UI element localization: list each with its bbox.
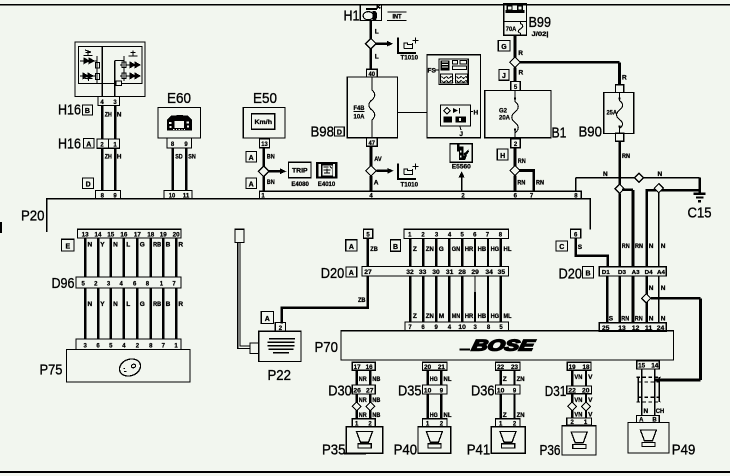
svg-text:ZN: ZN bbox=[426, 246, 434, 253]
svg-text:R: R bbox=[622, 75, 627, 82]
wire RN diamond to D20/B pin D3 bbox=[618, 193, 621, 266]
svg-text:D20: D20 bbox=[559, 266, 583, 283]
label A connector lower bbox=[246, 178, 257, 188]
svg-text:10: 10 bbox=[424, 388, 432, 394]
wires D20/B to P70 right bbox=[607, 276, 659, 323]
svg-text:HB: HB bbox=[478, 246, 487, 253]
connector P75 pins 3 6 5 4 2 8 7 1 bbox=[76, 339, 181, 350]
svg-text:20: 20 bbox=[173, 233, 181, 239]
connector P20 pins 10 11 bbox=[164, 190, 192, 199]
wire labels Z ZN M MN HR HB HG ML bbox=[413, 313, 512, 320]
svg-text:INT: INT bbox=[393, 14, 402, 21]
svg-text:NR: NR bbox=[359, 376, 367, 383]
svg-text:ZH: ZH bbox=[105, 154, 112, 161]
junction diamond RN split bbox=[615, 184, 624, 193]
label H16 B bbox=[58, 102, 93, 119]
speedometer E50 bbox=[243, 90, 285, 138]
svg-text:N: N bbox=[117, 111, 122, 118]
svg-text:HL: HL bbox=[504, 246, 512, 253]
battery positive symbol T1010 second bbox=[398, 164, 419, 189]
svg-text:19: 19 bbox=[569, 365, 577, 371]
ground line N to C15 bbox=[576, 177, 700, 179]
svg-text:ZN: ZN bbox=[517, 376, 525, 383]
svg-text:22: 22 bbox=[497, 365, 505, 371]
svg-text:B: B bbox=[585, 271, 590, 278]
svg-text:A: A bbox=[374, 180, 379, 187]
svg-text:A: A bbox=[249, 181, 254, 188]
arrow to trip computer bbox=[269, 168, 286, 174]
label C connector bbox=[556, 241, 567, 251]
svg-text:16: 16 bbox=[120, 233, 128, 239]
label J connector bbox=[499, 69, 509, 80]
arrow to battery feed T1010 bbox=[376, 41, 393, 47]
speaker P36 bbox=[540, 426, 597, 459]
wire ZH H16 pin4 to H16/A pin2 bbox=[101, 106, 104, 139]
svg-text:N: N bbox=[113, 242, 118, 249]
svg-text:H1: H1 bbox=[344, 8, 360, 25]
svg-text:P41: P41 bbox=[467, 442, 491, 459]
svg-text:22: 22 bbox=[568, 389, 576, 395]
svg-text:H: H bbox=[474, 110, 479, 117]
wire N drop to P20 pin8 bbox=[575, 178, 577, 191]
svg-text:B1: B1 bbox=[552, 124, 567, 141]
wire RN B90 down bbox=[618, 141, 621, 184]
svg-text:NR: NR bbox=[359, 412, 367, 419]
wire H H16/A pin1 to P20 pin9 bbox=[114, 148, 117, 190]
wire SD E60 pin8 to P20 pin10 bbox=[171, 148, 174, 191]
wire SN E60 pin9 to P20 pin11 bbox=[185, 148, 188, 191]
svg-text:ZN: ZN bbox=[517, 412, 525, 419]
fuse box B1 bbox=[485, 90, 551, 137]
svg-text:A: A bbox=[249, 155, 254, 162]
svg-text:N: N bbox=[649, 243, 654, 250]
svg-text:HR: HR bbox=[465, 246, 474, 253]
svg-text:S: S bbox=[609, 316, 614, 323]
svg-text:G: G bbox=[140, 301, 145, 308]
svg-text:35: 35 bbox=[498, 270, 506, 276]
wires P20 13-20 to D96 bbox=[85, 238, 176, 277]
label D20 B bbox=[559, 266, 594, 283]
svg-text:BN: BN bbox=[267, 179, 275, 186]
connector D36 pins 10 9 bbox=[471, 382, 520, 399]
svg-text:A: A bbox=[265, 316, 270, 323]
wires P70 to D31 bbox=[572, 370, 586, 386]
svg-text:T1010: T1010 bbox=[401, 182, 419, 188]
label H connector bbox=[497, 149, 508, 160]
P20 aerial connector square bbox=[235, 229, 244, 242]
svg-text:21: 21 bbox=[438, 365, 446, 371]
wire A diamond to P20 pin4 bbox=[370, 176, 373, 191]
svg-text:R: R bbox=[178, 242, 183, 249]
svg-text:N: N bbox=[661, 285, 666, 292]
svg-text:G: G bbox=[140, 242, 145, 249]
svg-text:FS: FS bbox=[428, 68, 437, 75]
svg-text:H16: H16 bbox=[58, 136, 81, 153]
svg-text:NL: NL bbox=[444, 412, 452, 419]
trip computer box TRIP bbox=[288, 162, 311, 188]
svg-text:RN: RN bbox=[621, 316, 629, 323]
FS relay pictogram with labels H J bbox=[441, 105, 479, 138]
junction diamond L wire bbox=[366, 38, 377, 49]
connector H16 pins 4 3 bbox=[98, 97, 120, 107]
amplifier antenna unit P22 bbox=[259, 331, 301, 361]
svg-text:17: 17 bbox=[354, 365, 362, 371]
wire BN diamond to P20 pin1 bbox=[262, 177, 265, 192]
svg-text:P75: P75 bbox=[40, 362, 63, 379]
svg-text:H: H bbox=[500, 153, 505, 160]
wire R B99 down bbox=[514, 35, 517, 57]
connector pin 2 of B1 bbox=[511, 139, 521, 148]
label D connector of P20 bbox=[83, 178, 94, 188]
svg-text:30: 30 bbox=[432, 270, 440, 276]
svg-text:E60: E60 bbox=[167, 90, 191, 107]
svg-text:E5560: E5560 bbox=[452, 165, 472, 171]
svg-text:H: H bbox=[117, 154, 122, 161]
connector P70 pins 22 23 bbox=[496, 362, 520, 371]
connector P49 pins A B bbox=[636, 415, 659, 423]
connector pin 5 of P20 bottom bbox=[363, 229, 372, 238]
svg-text:A: A bbox=[349, 244, 354, 251]
junction diamond VN bbox=[568, 402, 577, 411]
svg-text:A3: A3 bbox=[632, 270, 640, 276]
svg-text:31: 31 bbox=[446, 270, 454, 276]
svg-text:D3: D3 bbox=[618, 270, 626, 276]
label B connector bbox=[391, 240, 401, 252]
svg-text:R: R bbox=[519, 70, 524, 77]
svg-text:VN: VN bbox=[574, 397, 582, 404]
svg-text:27: 27 bbox=[364, 270, 372, 276]
svg-text:P35: P35 bbox=[322, 442, 346, 459]
svg-text:D35: D35 bbox=[398, 382, 422, 399]
wire RN branch to P20 pin7 bbox=[519, 171, 534, 192]
connector pin 40 bbox=[367, 69, 378, 78]
H16 internal lamp/LED symbols right cell bbox=[115, 51, 141, 86]
svg-text:HG: HG bbox=[430, 376, 438, 383]
svg-text:B98: B98 bbox=[311, 124, 335, 141]
svg-text:32: 32 bbox=[406, 270, 414, 276]
svg-text:P49: P49 bbox=[672, 441, 696, 458]
junction diamond R wire bbox=[510, 57, 521, 68]
fuse B90 bottom terminal bbox=[616, 133, 624, 141]
connector P70 pins 15 14 bbox=[637, 361, 660, 370]
svg-text:VN: VN bbox=[574, 374, 582, 381]
junction diamond V bbox=[582, 402, 591, 411]
wire L diamond to fuse B98 pin40 bbox=[369, 49, 372, 69]
label B99 J/02 bbox=[529, 14, 552, 38]
svg-text:20A: 20A bbox=[499, 116, 511, 122]
svg-text:N: N bbox=[661, 243, 666, 250]
P20 bottom connector strip pins 1-8 bbox=[404, 229, 508, 238]
svg-text:T1010: T1010 bbox=[401, 56, 419, 62]
svg-text:15: 15 bbox=[638, 364, 646, 370]
svg-text:AV: AV bbox=[374, 156, 382, 163]
junction diamond NR bbox=[352, 402, 361, 411]
connector P70 pins 19 18 bbox=[567, 362, 591, 371]
wires D36 to P41 bbox=[501, 394, 515, 419]
wire RN diamond to P20 pin6 bbox=[514, 176, 517, 192]
svg-text:13: 13 bbox=[261, 142, 268, 148]
svg-text:16: 16 bbox=[366, 365, 374, 371]
connector E60 pins 8 9 bbox=[167, 138, 192, 148]
label A connector bbox=[346, 240, 357, 251]
connector D35 pins 10 9 bbox=[398, 382, 447, 399]
svg-text:23: 23 bbox=[511, 365, 519, 371]
wire L from H1 bbox=[369, 20, 372, 39]
BOSE logo bbox=[460, 338, 537, 355]
svg-text:B: B bbox=[166, 242, 171, 249]
connector pin 5 of B1 bbox=[511, 82, 521, 91]
connector pin 2 of P22 bbox=[275, 323, 285, 332]
svg-text:14: 14 bbox=[651, 364, 659, 370]
speaker P35 bbox=[322, 427, 383, 459]
svg-text:Z: Z bbox=[413, 313, 417, 320]
svg-text:B: B bbox=[393, 244, 398, 251]
wire BN E50 pin13 down bbox=[262, 148, 265, 167]
svg-text:33: 33 bbox=[419, 270, 427, 276]
svg-text:HR: HR bbox=[465, 313, 474, 320]
svg-text:C15: C15 bbox=[688, 205, 712, 222]
wires P70 to antenna coupler bbox=[642, 369, 655, 415]
wire ZB P20 pin5 to D20/A pin27 bbox=[366, 238, 369, 266]
connector E50 pin 13 bbox=[259, 139, 269, 148]
svg-text:S: S bbox=[578, 244, 583, 251]
svg-text:26: 26 bbox=[353, 388, 361, 394]
svg-text:ZN: ZN bbox=[426, 313, 434, 320]
connector H16 A pins 2 1 bbox=[97, 139, 120, 148]
battery B99 bbox=[504, 4, 527, 22]
svg-text:Z: Z bbox=[503, 376, 507, 383]
connector P70 right pins 25 13 12 11 24 bbox=[599, 323, 666, 332]
connector P70 left pins 7 6 9 4 10 3 8 5 bbox=[405, 322, 509, 331]
fuse B90 top terminal bbox=[616, 85, 624, 93]
wire 29 thin then thick bbox=[474, 276, 476, 322]
svg-text:TRIP: TRIP bbox=[292, 168, 308, 175]
svg-text:N: N bbox=[649, 285, 654, 292]
svg-text:L: L bbox=[126, 242, 130, 249]
svg-text:RN: RN bbox=[622, 243, 630, 250]
svg-text:B90: B90 bbox=[579, 123, 603, 140]
fuse box B98 bbox=[347, 77, 397, 138]
connector P35 pins 1 2 bbox=[352, 419, 375, 428]
svg-text:N: N bbox=[644, 408, 649, 415]
svg-text:J: J bbox=[459, 131, 463, 138]
wire labels Z ZN G GN HR HB HG HL bbox=[413, 246, 512, 253]
wires D20/A to P70 bbox=[410, 276, 501, 322]
junction diamond BN wire bbox=[258, 166, 269, 177]
arrow to battery feed T1010 second bbox=[376, 168, 393, 174]
wire ZH H16/A pin2 to P20 pin8 bbox=[101, 148, 104, 190]
svg-text:RN: RN bbox=[622, 153, 630, 160]
FS fuse-panel pictogram bbox=[428, 59, 469, 85]
svg-text:N: N bbox=[113, 301, 118, 308]
svg-text:RN: RN bbox=[635, 243, 643, 250]
svg-text:D: D bbox=[86, 182, 91, 189]
svg-text:SN: SN bbox=[188, 154, 196, 161]
svg-text:27: 27 bbox=[366, 388, 374, 394]
svg-text:L: L bbox=[375, 54, 379, 61]
svg-text:BN: BN bbox=[267, 154, 275, 161]
svg-text:MN: MN bbox=[452, 313, 461, 320]
svg-text:D: D bbox=[337, 129, 342, 136]
label B98 D bbox=[311, 124, 345, 141]
connector D96 pins 5 2 3 4 6 8 1 7 bbox=[76, 277, 181, 288]
speaker P49 bbox=[628, 423, 695, 459]
svg-text:RN: RN bbox=[518, 158, 526, 165]
svg-text:RN: RN bbox=[635, 316, 643, 323]
svg-text:Z: Z bbox=[503, 412, 507, 419]
amplifier P70 bbox=[341, 331, 674, 360]
svg-text:D20: D20 bbox=[321, 265, 345, 282]
svg-text:GN: GN bbox=[452, 246, 461, 253]
wires P20 pins1-8 to D20/A bbox=[410, 239, 501, 267]
P20 top pin strip pins 1 4 2 6 7 8 bbox=[260, 191, 582, 199]
connector D31 pins 22 20 bbox=[545, 383, 592, 400]
svg-text:18: 18 bbox=[147, 233, 155, 239]
radio head unit P20 bbox=[47, 199, 590, 232]
svg-text:HG: HG bbox=[491, 313, 500, 320]
svg-text:47: 47 bbox=[369, 141, 376, 147]
svg-text:BOSE: BOSE bbox=[470, 338, 536, 355]
svg-text:R: R bbox=[518, 50, 523, 57]
wire N diamond to D20/B pin A4 bbox=[658, 193, 660, 267]
junction diamond RN wire bbox=[510, 165, 520, 175]
svg-text:NL: NL bbox=[444, 376, 452, 383]
aerial coax wire to P22 bbox=[238, 243, 250, 349]
interior lamp H1 bbox=[344, 5, 382, 25]
junction diamond NB bbox=[366, 402, 375, 411]
svg-text:HB: HB bbox=[478, 313, 487, 320]
svg-text:E50: E50 bbox=[253, 90, 277, 107]
svg-text:D31: D31 bbox=[545, 383, 567, 400]
svg-text:RB: RB bbox=[153, 242, 161, 249]
svg-text:E: E bbox=[65, 244, 70, 251]
svg-text:SD: SD bbox=[175, 154, 183, 161]
svg-text:RN: RN bbox=[517, 179, 525, 186]
svg-text:N: N bbox=[88, 301, 93, 308]
svg-text:Z: Z bbox=[413, 246, 417, 253]
wires P70 to D35 bbox=[428, 370, 442, 385]
wire R diamond to B1 pin5 bbox=[514, 68, 517, 82]
label D20 A bbox=[321, 265, 357, 282]
svg-text:ZB: ZB bbox=[370, 246, 378, 253]
CD changer P75 bbox=[67, 350, 191, 383]
svg-text:D96: D96 bbox=[52, 275, 75, 292]
svg-text:B: B bbox=[166, 301, 171, 308]
antenna coupler dashed cylinder bbox=[637, 377, 662, 402]
svg-text:N: N bbox=[649, 316, 654, 323]
svg-text:V: V bbox=[588, 411, 593, 418]
svg-text:ZB: ZB bbox=[358, 297, 366, 304]
P20 bottom connector pins 13-20 bbox=[77, 229, 181, 238]
wire labels N N above diamond bbox=[649, 285, 666, 292]
svg-text:V: V bbox=[588, 397, 593, 404]
svg-text:Y: Y bbox=[100, 242, 105, 249]
svg-text:NB: NB bbox=[372, 397, 380, 404]
svg-text:L: L bbox=[375, 29, 379, 36]
svg-text:R: R bbox=[178, 301, 183, 308]
wires to D20/B labels RN RN N N bbox=[622, 243, 666, 250]
wire S P20 pin6 to D20/B pin D1 bbox=[576, 238, 608, 267]
svg-text:N: N bbox=[88, 242, 93, 249]
svg-text:B99: B99 bbox=[529, 14, 552, 31]
wire N H16 pin3 to H16/A pin1 bbox=[114, 106, 117, 139]
svg-text:29: 29 bbox=[471, 270, 479, 276]
wires P70 to D36 bbox=[501, 370, 515, 385]
svg-text:NB: NB bbox=[372, 376, 380, 383]
svg-text:NR: NR bbox=[359, 397, 367, 404]
svg-text:A: A bbox=[86, 141, 91, 148]
svg-text:20: 20 bbox=[582, 389, 590, 395]
svg-text:E4010: E4010 bbox=[318, 182, 336, 188]
svg-text:P36: P36 bbox=[540, 442, 561, 459]
svg-text:D1: D1 bbox=[602, 270, 610, 276]
B99 fuse 70A bbox=[504, 21, 527, 35]
junction diamond N bus bbox=[654, 184, 663, 193]
connector D30 pins 26 27 bbox=[328, 382, 375, 399]
svg-text:25A: 25A bbox=[607, 111, 618, 117]
svg-text:20: 20 bbox=[424, 365, 432, 371]
svg-text:P20: P20 bbox=[21, 208, 45, 225]
body computer unit FS bbox=[427, 55, 481, 138]
H16 internal lamp/LED symbols left cell bbox=[80, 50, 99, 84]
wire labels N Y N L G RB B R bbox=[88, 242, 184, 249]
connector P70 pins 17 16 bbox=[352, 362, 375, 371]
arrow wire E5560 to P20 pin2 bbox=[459, 171, 465, 191]
wire ZB D20/A pin27 to P22 pin2 bbox=[282, 276, 368, 323]
svg-text:D4: D4 bbox=[645, 270, 654, 276]
svg-text:13: 13 bbox=[82, 233, 90, 239]
junction diamond AV wire bbox=[366, 166, 377, 177]
svg-text:15: 15 bbox=[107, 233, 115, 239]
wire antenna feed to P49 area bbox=[651, 298, 701, 380]
svg-text:L: L bbox=[126, 301, 130, 308]
fuse box B90 25A bbox=[604, 92, 634, 133]
svg-text:HG: HG bbox=[430, 412, 438, 419]
svg-text:RB: RB bbox=[153, 301, 161, 308]
svg-text:18: 18 bbox=[583, 365, 591, 371]
svg-text:C: C bbox=[559, 244, 564, 251]
svg-text:A: A bbox=[349, 270, 354, 277]
svg-text:P40: P40 bbox=[394, 442, 418, 459]
wires P70 to D30 bbox=[357, 370, 371, 385]
svg-text:N: N bbox=[603, 171, 608, 178]
instrument module E60 bbox=[158, 90, 201, 138]
label A connector bbox=[246, 152, 257, 162]
speaker P41 bbox=[467, 427, 526, 459]
svg-text:RN: RN bbox=[536, 179, 544, 186]
svg-text:Y: Y bbox=[100, 301, 105, 308]
svg-text:34: 34 bbox=[485, 270, 493, 276]
svg-text:HG: HG bbox=[491, 246, 500, 253]
svg-text:P70: P70 bbox=[315, 339, 339, 356]
wire RN B1 pin2 down bbox=[514, 148, 517, 166]
svg-text:A4: A4 bbox=[657, 270, 666, 276]
junction diamond antenna feed bbox=[642, 294, 651, 303]
svg-text:N: N bbox=[658, 171, 663, 178]
svg-text:70A: 70A bbox=[506, 27, 517, 33]
svg-text:N: N bbox=[661, 316, 666, 323]
wires D35 to P40 bbox=[428, 394, 442, 419]
lamp cluster H16 bbox=[75, 42, 145, 97]
wire R branch to B90 bbox=[520, 62, 620, 84]
svg-text:E4080: E4080 bbox=[291, 182, 309, 188]
wires D96 to P75 bbox=[85, 288, 176, 339]
connector P70 pins 20 21 bbox=[423, 362, 448, 371]
connector pin 47 bbox=[367, 138, 378, 147]
wires D30 to P35 with junction diamonds bbox=[357, 394, 371, 419]
label INT bbox=[387, 12, 407, 22]
connector D20 A pins 27 32 33 30 31 28 29 34 35 bbox=[362, 267, 508, 277]
